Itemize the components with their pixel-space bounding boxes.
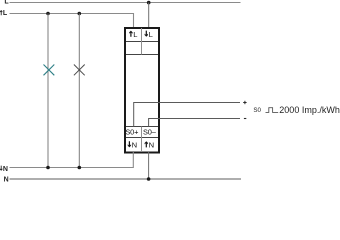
wire up-L bus with corner down into meter bbox=[10, 14, 134, 29]
net label up-L bbox=[0, 10, 8, 17]
terminal label up-L bbox=[129, 30, 137, 39]
wire L bus bbox=[10, 2, 241, 4]
svg-text:2000 Imp./kWh: 2000 Imp./kWh bbox=[279, 105, 340, 115]
svg-text:L: L bbox=[133, 30, 137, 39]
meter box outline U1 bbox=[125, 28, 159, 153]
load branch wire 1 bbox=[47, 14, 49, 168]
terminal label up-N bbox=[145, 140, 154, 149]
wire from L junction down to meter terminal down-L bbox=[148, 3, 150, 29]
meter inner horizontal line between S0 and N rows bbox=[126, 137, 158, 139]
svg-text:N: N bbox=[3, 166, 8, 173]
annotation pulse symbol bbox=[266, 108, 279, 113]
wire from meter up-N terminal down to N bus bbox=[148, 152, 150, 179]
wire down-N bus with corner up into meter bbox=[10, 152, 134, 168]
junction dot on down-N at first branch bbox=[46, 166, 50, 170]
junction dot on N bus bbox=[147, 177, 151, 181]
wire S0- output bbox=[149, 119, 240, 127]
junction dot on L bus bbox=[147, 1, 151, 5]
terminal label down-N bbox=[128, 140, 137, 149]
wire S0+ output bbox=[134, 103, 240, 127]
svg-text:N: N bbox=[149, 140, 154, 149]
load branch wire 2 bbox=[78, 14, 80, 168]
load X mark 1 (teal) bbox=[44, 65, 55, 76]
meter vertical divider bottom section bbox=[141, 127, 143, 153]
junction dot on up-L at first branch bbox=[46, 12, 50, 16]
terminal label down-L bbox=[145, 30, 153, 39]
net label down-N bbox=[0, 166, 8, 173]
meter vertical divider top section bbox=[141, 28, 143, 55]
svg-text:S0–: S0– bbox=[143, 128, 157, 137]
svg-text:N: N bbox=[132, 140, 137, 149]
junction dot on up-L at second branch bbox=[78, 12, 82, 16]
svg-text:N: N bbox=[4, 177, 9, 184]
svg-text:L: L bbox=[4, 0, 9, 5]
junction dot on down-N at second branch bbox=[78, 166, 82, 170]
wire N bus bbox=[10, 178, 242, 180]
load X mark 2 (dark) bbox=[74, 65, 85, 76]
svg-text:L: L bbox=[3, 10, 8, 17]
meter inner horizontal line top of S0 row bbox=[126, 126, 158, 128]
polarity mark minus bbox=[244, 118, 246, 120]
svg-text:L: L bbox=[149, 30, 153, 39]
svg-text:S0: S0 bbox=[253, 107, 261, 114]
meter inner horizontal line under L terminals bbox=[126, 41, 158, 43]
meter inner horizontal line second bbox=[126, 54, 158, 56]
polarity mark plus bbox=[243, 101, 246, 104]
svg-text:S0+: S0+ bbox=[125, 128, 138, 137]
